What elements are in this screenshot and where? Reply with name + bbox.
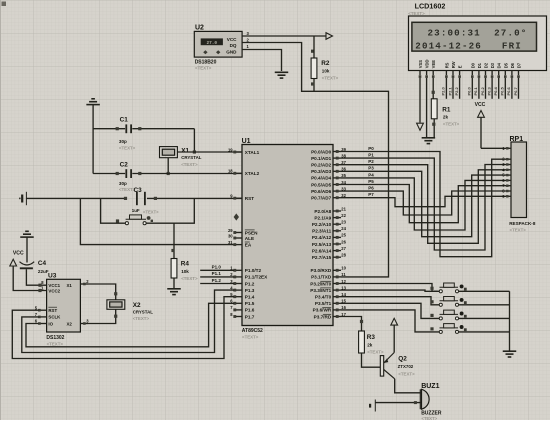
svg-text:ALE: ALE — [245, 236, 254, 241]
C2 value 30p — [119, 181, 127, 186]
svg-text:RS: RS — [444, 62, 449, 68]
svg-text:BUZ1: BUZ1 — [421, 383, 439, 390]
ground (oscillator) — [86, 99, 100, 105]
wire P3 to button K4 — [341, 310, 439, 332]
svg-text:U2: U2 — [195, 25, 204, 32]
svg-text:DQ: DQ — [230, 43, 237, 48]
power arrow down (VSS) — [417, 123, 424, 130]
wire button K3 to ground bus — [459, 317, 510, 319]
svg-text:31: 31 — [228, 240, 233, 245]
C1 value 30p — [119, 139, 127, 144]
ground (DS18B20) — [275, 72, 289, 78]
svg-text:P0.5/AD5: P0.5/AD5 — [311, 182, 332, 187]
BUZ1 name BUZZER — [421, 411, 442, 417]
wire net P7 (P0 bus to RP1) — [341, 196, 506, 206]
capacitor C4 (electrolytic) — [20, 262, 35, 269]
svg-text:RW: RW — [451, 61, 456, 68]
svg-text:<TEXT>: <TEXT> — [398, 371, 415, 376]
U1 name AT89C52 — [242, 328, 263, 334]
svg-text:P0.7/AD7: P0.7/AD7 — [311, 196, 332, 201]
svg-text:P1.2: P1.2 — [245, 281, 255, 286]
svg-text:<TEXT>: <TEXT> — [242, 335, 259, 340]
svg-text:RST: RST — [245, 196, 254, 201]
svg-text:VCC: VCC — [475, 102, 486, 108]
svg-text:2k: 2k — [367, 342, 373, 347]
U3 right pin labels — [67, 283, 73, 326]
C1 <TEXT> — [119, 146, 136, 151]
C3 <TEXT> — [143, 210, 159, 215]
svg-text:U3: U3 — [48, 273, 57, 280]
svg-text:P2.4/A12: P2.4/A12 — [312, 235, 332, 240]
svg-text:Q2: Q2 — [398, 355, 407, 362]
svg-text:<TEXT>: <TEXT> — [195, 66, 212, 71]
svg-text:RESPACK-8: RESPACK-8 — [509, 221, 536, 226]
wire R4 to ground — [173, 278, 175, 288]
respack RP1 label — [510, 136, 524, 143]
svg-text:<TEXT>: <TEXT> — [47, 341, 64, 346]
svg-text:26: 26 — [341, 239, 346, 244]
svg-text:D2: D2 — [484, 62, 489, 68]
R2 <TEXT> — [322, 76, 339, 81]
svg-text:P0.1: P0.1 — [473, 86, 478, 95]
buzzer BUZ1 — [420, 389, 429, 409]
capacitor C2 label — [120, 161, 129, 168]
svg-text:P2.1: P2.1 — [447, 86, 452, 95]
svg-text:P1.3: P1.3 — [245, 288, 255, 293]
R4 <TEXT> — [181, 276, 198, 281]
wire net P4 (P0 bus to RP1) — [341, 178, 506, 230]
capacitor C3 — [124, 192, 157, 205]
C3 value 1uF — [132, 208, 140, 213]
svg-text:23: 23 — [341, 220, 346, 225]
X1 label — [181, 147, 189, 154]
R4 value 10k — [181, 269, 189, 274]
svg-text:<TEXT>: <TEXT> — [119, 146, 136, 151]
svg-text:GND: GND — [226, 49, 237, 54]
svg-text:C3: C3 — [134, 187, 143, 194]
U2 name text — [195, 59, 217, 65]
wire SCLK to P1.3 — [22, 290, 234, 352]
power arrow VCC (Q2) — [391, 318, 398, 352]
C4 value 22uF — [38, 269, 49, 274]
wire C4 to VCC1 — [26, 269, 46, 287]
svg-text:P1.1: P1.1 — [212, 271, 222, 276]
net labels LCD pins — [441, 86, 518, 95]
button K1 — [430, 283, 466, 293]
BUZ1 <TEXT> — [422, 416, 438, 421]
svg-text:P3.4/T0: P3.4/T0 — [315, 295, 332, 300]
svg-text:VCC1: VCC1 — [48, 283, 60, 288]
svg-text:D4: D4 — [497, 62, 502, 68]
svg-text:23:00:31 27.0°: 23:00:31 27.0° — [428, 27, 528, 38]
svg-text:22: 22 — [341, 213, 346, 218]
rtc U3 label — [48, 273, 57, 280]
svg-text:P0.1/AD1: P0.1/AD1 — [311, 156, 332, 161]
wire button K1 to ground bus — [459, 290, 510, 292]
ground (buttons) — [503, 351, 517, 357]
svg-text:30p: 30p — [119, 139, 127, 144]
sensor U2 DS18B20 body — [194, 31, 242, 57]
U2 pin numbers — [247, 31, 250, 49]
U1 right pin stubs and numbers — [333, 147, 347, 318]
Q2 value ZTX702 — [398, 364, 414, 369]
svg-text:P1.4: P1.4 — [245, 295, 255, 300]
svg-text:ZTX702: ZTX702 — [398, 364, 414, 369]
mcu U1 AT89C52 body — [242, 145, 333, 326]
wire C1 to XTAL1 — [193, 129, 196, 154]
svg-text:P3.3/INT1: P3.3/INT1 — [310, 288, 331, 293]
wire button K2 to ground bus — [459, 304, 510, 306]
svg-text:CRYSTAL: CRYSTAL — [133, 309, 154, 314]
wire net P3 (P0 bus to RP1) — [341, 171, 506, 236]
svg-text:D0: D0 — [470, 62, 475, 68]
power VCC label (RP1) — [475, 102, 486, 108]
svg-text:<TEXT>: <TEXT> — [181, 162, 198, 167]
svg-text:IO: IO — [48, 321, 53, 326]
net labels P0-P7 — [368, 146, 374, 197]
U1 left pin stubs and numbers — [228, 147, 242, 318]
power arrow VCC (DS1302) — [10, 259, 17, 266]
svg-text:10k: 10k — [322, 69, 330, 74]
buzzer BUZ1 label — [421, 383, 439, 390]
svg-text:P3.0/RXD: P3.0/RXD — [311, 268, 332, 273]
capacitor C3 label — [134, 187, 143, 194]
R2 label — [321, 60, 330, 67]
X2 label — [133, 302, 141, 309]
U1 right pin labels — [310, 149, 332, 319]
svg-text:P1: P1 — [368, 153, 374, 158]
svg-text:DS1302: DS1302 — [46, 335, 64, 341]
svg-text:P6: P6 — [368, 186, 374, 191]
wire IO to P1.5 — [26, 303, 234, 347]
respack RP1 body — [511, 142, 527, 218]
wire net P5 (P0 bus to RP1) — [341, 185, 506, 223]
R3 label — [367, 334, 376, 341]
capacitor C1 label — [120, 117, 129, 124]
sheet corner mark — [1, 0, 7, 420]
svg-text:<TEXT>: <TEXT> — [422, 416, 438, 420]
svg-text:29: 29 — [228, 228, 233, 233]
svg-text:P3.7/RD: P3.7/RD — [314, 314, 332, 319]
svg-text:R2: R2 — [321, 60, 330, 67]
wire LCD VDD to ground — [426, 78, 428, 138]
cell (buzzer) — [370, 400, 375, 412]
svg-text:2014-12-26 FRI: 2014-12-26 FRI — [415, 41, 522, 52]
svg-text:RST: RST — [48, 308, 57, 313]
R3 <TEXT> — [367, 350, 384, 355]
U3 pin numbers — [35, 279, 90, 324]
resistor R4 — [171, 259, 177, 279]
svg-text:P7: P7 — [368, 192, 374, 197]
svg-text:P3.2/INT0: P3.2/INT0 — [310, 281, 331, 286]
cell (reset) — [19, 192, 26, 205]
ground (R4) — [167, 289, 181, 295]
svg-text:D3: D3 — [490, 62, 495, 68]
wire U3 X1 to crystal — [88, 284, 117, 300]
wire R1 to ground — [427, 119, 436, 138]
svg-text:R4: R4 — [181, 260, 190, 267]
svg-text:VCC: VCC — [227, 37, 237, 42]
LCD pin names — [418, 60, 522, 69]
U1 left pin labels — [245, 150, 268, 319]
svg-text:P2.1/A9: P2.1/A9 — [314, 215, 331, 220]
svg-text:10k: 10k — [181, 269, 189, 274]
U1 polarity diamond — [234, 213, 239, 220]
wire R4 branch (to EA) — [80, 198, 234, 244]
svg-text:P2.7/A15: P2.7/A15 — [312, 255, 332, 260]
power arrow VCC (RP1) — [478, 111, 485, 149]
wire P3 to button K3 — [341, 303, 439, 318]
svg-text:P0.7: P0.7 — [513, 86, 518, 95]
wire button row to R4 — [171, 223, 174, 258]
svg-text:21: 21 — [341, 206, 346, 211]
R2 value 10k — [322, 69, 330, 74]
power arrow VCC (DS18B20) — [326, 33, 333, 40]
resistor R3 — [359, 331, 365, 353]
wire LCD control/data stubs — [446, 78, 518, 99]
svg-text:P0: P0 — [368, 146, 374, 151]
wire net P1 (P0 bus to RP1) — [341, 158, 506, 250]
svg-text:DS18B20: DS18B20 — [195, 59, 217, 65]
svg-text:P3.5/T1: P3.5/T1 — [315, 301, 332, 306]
capacitor C1 — [93, 124, 194, 133]
svg-text:X1: X1 — [181, 147, 189, 154]
svg-text:P1.6: P1.6 — [245, 308, 255, 313]
wire reset button loop — [101, 198, 195, 223]
button K3 — [430, 310, 466, 320]
svg-text:<TEXT>: <TEXT> — [408, 11, 425, 16]
svg-text:AT89C52: AT89C52 — [242, 328, 263, 334]
wire net P6 (P0 bus to RP1) — [341, 191, 506, 215]
X2 value CRYSTAL — [133, 309, 154, 314]
wire U2 GND — [242, 50, 281, 72]
wire R3 to Q2 base — [362, 353, 381, 367]
svg-text:CRYSTAL: CRYSTAL — [181, 155, 202, 160]
ground (C4, flipped) — [20, 231, 34, 262]
mcu U1 label — [242, 138, 251, 145]
R3 value 2k — [367, 342, 373, 347]
wire VCC to VCC2 — [13, 266, 46, 292]
U3 pin stubs — [38, 283, 88, 325]
U2 <TEXT> — [195, 66, 212, 71]
svg-text:PSEN: PSEN — [245, 230, 258, 235]
svg-text:P2.2: P2.2 — [454, 86, 459, 95]
svg-text:P1.2: P1.2 — [212, 278, 222, 283]
svg-text:25: 25 — [341, 233, 346, 238]
svg-text:X2: X2 — [133, 302, 141, 309]
R1 value 2k — [443, 115, 449, 120]
Q2 label — [398, 355, 407, 362]
wire U2 VCC to power arrow — [242, 36, 326, 53]
U3 <TEXT> — [47, 341, 64, 346]
svg-text:P1.0/T2: P1.0/T2 — [245, 268, 262, 273]
svg-text:D1: D1 — [477, 62, 482, 68]
R1 <TEXT> — [443, 121, 460, 126]
U1 <TEXT> — [242, 335, 259, 340]
wire reset row — [26, 197, 242, 199]
wire U2 DQ net — [242, 43, 388, 277]
resistor R2 — [311, 36, 317, 91]
svg-text:P2: P2 — [368, 159, 374, 164]
wire P1.0-P1.2 stubs — [200, 270, 234, 283]
svg-text:<TEXT>: <TEXT> — [181, 276, 198, 281]
svg-text:C4: C4 — [38, 260, 47, 267]
svg-text:P2.0/A8: P2.0/A8 — [314, 209, 331, 214]
svg-text:EA: EA — [245, 242, 252, 247]
svg-text:27: 27 — [341, 246, 346, 251]
svg-text:P1.0: P1.0 — [212, 265, 222, 270]
svg-text:P0.5: P0.5 — [500, 86, 505, 95]
wire net P0 (P0 bus to RP1) — [341, 152, 506, 257]
wire P3 to button K2 — [341, 297, 439, 305]
svg-text:P0.4: P0.4 — [493, 86, 498, 95]
U3 left pin labels — [48, 283, 61, 326]
svg-text:VEE: VEE — [431, 60, 436, 69]
svg-text:24: 24 — [341, 226, 346, 231]
wire cell to buzzer — [375, 401, 421, 404]
svg-text:C2: C2 — [120, 161, 129, 168]
svg-text:P0.3/AD3: P0.3/AD3 — [311, 169, 332, 174]
svg-text:D6: D6 — [510, 62, 515, 68]
svg-text:P2.3/A11: P2.3/A11 — [312, 229, 332, 234]
svg-text:P0.0: P0.0 — [467, 86, 472, 95]
wire X1 to XTAL1 pin — [177, 151, 242, 153]
svg-text:VCC: VCC — [13, 250, 24, 256]
svg-text:LCD1602: LCD1602 — [415, 2, 446, 11]
svg-text:P2.5/A13: P2.5/A13 — [312, 242, 332, 247]
svg-text:P2.2/A10: P2.2/A10 — [312, 222, 332, 227]
LCD <TEXT> — [408, 11, 425, 16]
svg-text:P1.7: P1.7 — [245, 314, 255, 319]
svg-text:<TEXT>: <TEXT> — [443, 121, 460, 126]
X2 <TEXT> — [133, 316, 150, 321]
transistor Q2 — [380, 353, 394, 379]
svg-text:P3: P3 — [368, 166, 374, 171]
svg-text:<TEXT>: <TEXT> — [133, 316, 150, 321]
net labels P1.0 P1.1 P1.2 — [212, 265, 222, 283]
svg-text:P0.2/AD2: P0.2/AD2 — [311, 163, 332, 168]
svg-text:VSS: VSS — [418, 60, 423, 69]
svg-text:19: 19 — [228, 147, 233, 152]
Q2 <TEXT> — [398, 371, 415, 376]
wire button ground bus — [509, 291, 511, 350]
svg-text:27.0: 27.0 — [207, 41, 218, 46]
svg-text:<TEXT>: <TEXT> — [510, 227, 527, 232]
wire VCC to RP1 pin1 — [481, 147, 506, 149]
wire P3 to button K1 — [341, 284, 439, 292]
svg-text:10: 10 — [341, 266, 346, 271]
svg-text:18: 18 — [228, 169, 233, 174]
LCD text line2 — [415, 41, 522, 52]
LCD pin stubs — [419, 71, 520, 78]
LCD text line1 — [428, 27, 528, 38]
svg-text:R1: R1 — [442, 106, 451, 113]
wire P3.3 to button K1 — [341, 290, 438, 291]
reset button — [116, 215, 153, 225]
wire LCD VEE to R1 — [432, 78, 435, 99]
X1 <TEXT> — [181, 162, 198, 167]
wire X1 to XTAL2 row — [167, 158, 170, 175]
svg-text:P2.6/A14: P2.6/A14 — [312, 248, 332, 253]
sensor U2 label — [195, 25, 204, 32]
svg-text:XTAL2: XTAL2 — [245, 171, 260, 176]
svg-text:30p: 30p — [119, 181, 127, 186]
svg-text:P4: P4 — [368, 172, 374, 177]
RP1 pin stubs and numbers — [502, 146, 511, 199]
rtc U3 DS1302 body — [47, 279, 81, 332]
svg-text:VCC2: VCC2 — [48, 288, 60, 293]
svg-text:XTAL1: XTAL1 — [245, 150, 260, 155]
wire RST to P1.4 — [12, 297, 234, 359]
svg-text:P2.0: P2.0 — [441, 86, 446, 95]
svg-text:P1.5: P1.5 — [245, 301, 255, 306]
wire oscillator ground bus — [92, 105, 94, 174]
button K4 — [430, 324, 466, 334]
wire net P2 (P0 bus to RP1) — [341, 165, 506, 244]
svg-text:<TEXT>: <TEXT> — [367, 350, 384, 355]
svg-text:<TEXT>: <TEXT> — [322, 76, 339, 81]
R1 label — [442, 106, 451, 113]
button K2 — [430, 297, 466, 307]
display LCD1602 body — [409, 16, 547, 71]
svg-text:28: 28 — [341, 253, 346, 258]
svg-text:P0.6/AD6: P0.6/AD6 — [311, 189, 332, 194]
wire crystal to U3 X2 — [88, 309, 117, 323]
wire LCD VSS — [419, 78, 421, 123]
LCD screen — [412, 22, 537, 51]
ground (LCD) — [422, 138, 436, 144]
svg-text:2k: 2k — [443, 115, 449, 120]
crystal X1 — [160, 147, 178, 158]
svg-text:11: 11 — [341, 272, 346, 277]
svg-text:P0.6: P0.6 — [506, 86, 511, 95]
svg-text:P3.6/WR: P3.6/WR — [313, 308, 332, 313]
svg-text:VDD: VDD — [425, 60, 430, 69]
RP1 name RESPACK-8 — [509, 221, 536, 226]
svg-text:E: E — [458, 65, 463, 68]
svg-text:P0.4/AD4: P0.4/AD4 — [311, 176, 332, 181]
svg-text:X2: X2 — [67, 321, 73, 326]
RP1 <TEXT> — [510, 227, 527, 232]
svg-text:P3.1/TXD: P3.1/TXD — [311, 275, 332, 280]
C2 <TEXT> — [119, 187, 136, 192]
U3 name DS1302 — [46, 335, 64, 341]
svg-text:X1: X1 — [67, 283, 73, 288]
display LCD1602 label — [415, 2, 446, 11]
svg-text:P0.3: P0.3 — [486, 86, 491, 95]
capacitor C2 — [93, 169, 242, 178]
svg-text:30: 30 — [228, 233, 233, 238]
svg-text:P0.2: P0.2 — [480, 86, 485, 95]
crystal X2 — [107, 300, 125, 310]
svg-text:D7: D7 — [517, 62, 522, 68]
svg-text:P0.0/AD0: P0.0/AD0 — [311, 149, 332, 154]
svg-text:1uF: 1uF — [132, 208, 140, 213]
svg-text:P1.1/T2EX: P1.1/T2EX — [245, 275, 268, 280]
C4 label — [38, 260, 47, 267]
wire P3.7 to R3 — [341, 317, 363, 332]
wire button K4 to ground bus — [459, 331, 510, 333]
svg-text:P5: P5 — [368, 179, 374, 184]
svg-text:D5: D5 — [503, 62, 508, 68]
svg-text:<TEXT>: <TEXT> — [143, 210, 159, 215]
svg-text:R3: R3 — [367, 334, 376, 341]
svg-text:C1: C1 — [120, 117, 129, 124]
R4 label — [181, 260, 190, 267]
resistor R1 — [431, 99, 437, 119]
power VCC label (DS1302) — [13, 250, 24, 256]
X1 value CRYSTAL — [181, 155, 202, 160]
